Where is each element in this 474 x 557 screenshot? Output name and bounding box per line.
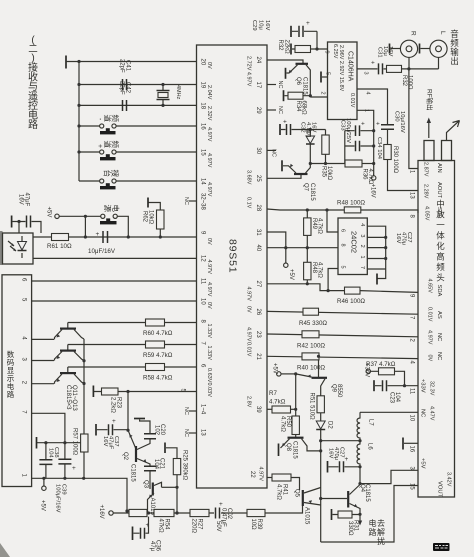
- svg-text:源: 源: [103, 205, 112, 213]
- +5V terminal: [55, 214, 59, 218]
- svg-text:1: 1: [364, 109, 370, 112]
- svg-text:出: 出: [450, 56, 459, 66]
- transistor Q8 C1815: [295, 435, 297, 438]
- resistor R39 10: [247, 509, 265, 516]
- svg-text:15: 15: [200, 149, 206, 156]
- inductor L6: [357, 441, 360, 467]
- svg-text:体: 体: [436, 231, 445, 241]
- +5V vertical wire: [295, 374, 297, 416]
- svg-text:C1815: C1815: [309, 183, 315, 201]
- svg-text:2.8V: 2.8V: [246, 396, 252, 408]
- resistor R50 4.7k: [292, 416, 299, 435]
- svg-text:+: +: [376, 121, 380, 128]
- svg-text:10kΩ: 10kΩ: [326, 166, 332, 181]
- svg-text:100μ/25V: 100μ/25V: [345, 118, 351, 143]
- svg-text:2: 2: [359, 245, 365, 248]
- svg-text:Q5: Q5: [294, 489, 300, 498]
- svg-text:15: 15: [409, 483, 415, 490]
- wire IC pin24 to Q6 base: [267, 60, 303, 63]
- wire display pin4 row: [32, 338, 54, 340]
- wire R23 junction down to Q2 base: [128, 392, 136, 450]
- svg-text:+: +: [371, 60, 375, 67]
- IC pins 1~4 NC: [189, 410, 197, 412]
- svg-text:去: 去: [377, 518, 385, 528]
- svg-text:330Ω: 330Ω: [347, 521, 353, 536]
- svg-text:6.25V: 6.25V: [332, 44, 338, 59]
- svg-text:24C02: 24C02: [350, 231, 359, 253]
- svg-text:R42 100Ω: R42 100Ω: [297, 343, 325, 350]
- svg-text:R32: R32: [401, 75, 407, 87]
- RF output arrow: [428, 122, 430, 138]
- svg-text:R58 4.7kΩ: R58 4.7kΩ: [143, 375, 173, 382]
- svg-text:4.97V: 4.97V: [206, 153, 212, 168]
- svg-text:R7: R7: [269, 390, 277, 397]
- svg-text:NC: NC: [183, 197, 189, 205]
- wire Q3 collector to R25 line: [162, 486, 178, 488]
- svg-text:10μ/16V: 10μ/16V: [399, 111, 405, 133]
- svg-text:放: 放: [436, 210, 445, 220]
- svg-text:4.7kΩ: 4.7kΩ: [276, 484, 282, 500]
- pushbutton S4 电源: [101, 214, 105, 218]
- svg-text:0V: 0V: [246, 306, 252, 313]
- svg-text:8550: 8550: [336, 384, 342, 398]
- svg-text:路: 路: [28, 118, 38, 131]
- svg-text:11: 11: [409, 388, 415, 395]
- svg-text:D2: D2: [327, 421, 333, 429]
- svg-text:12: 12: [200, 255, 206, 262]
- svg-text:4.7kΩ: 4.7kΩ: [280, 416, 286, 432]
- wire receiver out to pin12 row: [33, 257, 197, 259]
- wire display pin6 to IC pin11: [32, 280, 197, 282]
- svg-text:+: +: [96, 144, 103, 148]
- svg-text:R45 330Ω: R45 330Ω: [299, 320, 327, 327]
- svg-text:1~4: 1~4: [200, 404, 206, 415]
- svg-text:0.1V: 0.1V: [246, 197, 252, 209]
- svg-text:C1815: C1815: [130, 464, 136, 482]
- wire pin19 row: [79, 84, 197, 86]
- resistor R48 4.7k (pulldown): [304, 262, 311, 280]
- wire pin9 row: [33, 236, 197, 238]
- wire display pin2 row: [32, 383, 54, 385]
- svg-text:R57 100Ω: R57 100Ω: [72, 428, 78, 456]
- svg-text:5: 5: [325, 72, 331, 75]
- ground at 24C02 pin7: [378, 269, 386, 279]
- svg-text:R: R: [410, 31, 417, 36]
- svg-text:16: 16: [200, 123, 206, 130]
- transistor Q5 A1015: [302, 490, 304, 506]
- pushbutton S3 搜台: [100, 179, 104, 183]
- resistor R23 2.2k: [102, 388, 119, 395]
- svg-text:10μ: 10μ: [258, 20, 264, 30]
- svg-text:104: 104: [48, 448, 54, 458]
- wire IC pin28 SCL row: [267, 209, 418, 213]
- svg-text:11: 11: [200, 278, 206, 285]
- wire display pin3 row: [32, 360, 54, 362]
- svg-text:102: 102: [154, 425, 160, 436]
- wire L7 top to tuner pin10: [360, 411, 418, 413]
- wire display pin7 row: [32, 413, 65, 442]
- svg-text:4.47V: 4.47V: [429, 406, 435, 421]
- resistor R34 68k: [283, 90, 285, 101]
- IR receiver box: [3, 233, 34, 264]
- svg-text:+: +: [72, 465, 76, 472]
- resistor R57 100: [81, 434, 88, 452]
- svg-text:A1015: A1015: [304, 507, 310, 525]
- svg-text:4: 4: [359, 223, 365, 226]
- resistor R48 100 (SCL): [344, 207, 361, 213]
- +36V terminal and R37 4.7k: [366, 369, 370, 373]
- svg-text:10: 10: [200, 298, 206, 305]
- wire tuner pin11 row: [375, 385, 418, 387]
- RCA jack L: [430, 40, 447, 57]
- svg-text:NC: NC: [277, 106, 283, 114]
- ground symbol top-left: [65, 56, 67, 69]
- svg-text:2.32V: 2.32V: [206, 106, 212, 121]
- svg-text:47μ: 47μ: [149, 541, 155, 552]
- photodiode D3 in receiver: [21, 236, 23, 258]
- svg-text:AOUT: AOUT: [436, 182, 442, 199]
- wire +5V to Q9 emitter: [281, 373, 296, 375]
- svg-text:20: 20: [200, 59, 206, 66]
- wire Q4 base: [321, 498, 347, 500]
- wire IC pin39 to R7: [267, 408, 272, 410]
- resistor R40 100: [302, 353, 319, 360]
- capacitor C02 0.47uF 50V: [216, 508, 220, 519]
- svg-text:16V: 16V: [18, 194, 24, 205]
- wire IC pin7 to R59: [68, 344, 197, 346]
- RF output connector post: [424, 141, 434, 161]
- resistor R54 47k: [154, 509, 174, 516]
- transistor Q7 C1815: [267, 175, 301, 179]
- svg-text:+5V: +5V: [272, 363, 278, 374]
- 24C02 pin5 stub: [328, 269, 338, 291]
- svg-text:R48 100Ω: R48 100Ω: [337, 200, 365, 207]
- +5V terminal bottom: [43, 478, 45, 486]
- svg-text:NC: NC: [271, 149, 277, 157]
- capacitor C20 102: [144, 434, 156, 439]
- wire +16V rail: [113, 506, 302, 513]
- svg-text:+: +: [283, 119, 287, 126]
- svg-text:19: 19: [200, 82, 206, 89]
- svg-text:R59 4.7kΩ: R59 4.7kΩ: [143, 352, 173, 359]
- svg-text:NC: NC: [183, 407, 189, 415]
- wire +5V drop to pin9 row: [84, 216, 86, 237]
- svg-text:R35: R35: [321, 166, 327, 178]
- svg-text:台: 台: [103, 170, 113, 178]
- svg-text:C31: C31: [377, 47, 383, 58]
- svg-text:Q6: Q6: [295, 77, 301, 86]
- svg-text:32.3V: 32.3V: [429, 381, 435, 396]
- svg-text:16V: 16V: [102, 436, 108, 446]
- capacitor C38 104: [45, 443, 47, 479]
- wire display pin1 row: [32, 478, 127, 509]
- svg-text:Q2: Q2: [122, 452, 128, 461]
- svg-text:32~38: 32~38: [200, 193, 206, 211]
- capacitor C27 470u 16V (bottom): [327, 461, 329, 473]
- antenna symbol: [447, 121, 460, 141]
- svg-text:R25 390kΩ: R25 390kΩ: [182, 450, 188, 481]
- capacitor C36 47u: [132, 527, 134, 541]
- svg-text:R40 100Ω: R40 100Ω: [297, 365, 325, 372]
- wire C38/C39 top row: [37, 442, 81, 444]
- svg-text:8: 8: [340, 244, 346, 247]
- svg-text:SDA: SDA: [436, 285, 442, 297]
- capacitor C32 4.7u 16V: [279, 124, 281, 135]
- svg-text:R30 100Ω: R30 100Ω: [392, 146, 398, 174]
- svg-text:R46 100Ω: R46 100Ω: [337, 298, 365, 305]
- wire audio junction to tuner pin1: [409, 69, 418, 169]
- wire IC pin31 drop: [267, 232, 286, 248]
- svg-text:R61 10Ω: R61 10Ω: [47, 243, 72, 250]
- svg-text:2.87V: 2.87V: [423, 162, 429, 177]
- svg-text:220Ω: 220Ω: [191, 519, 197, 534]
- vertical spine wire D2 to bottom rail: [320, 430, 322, 542]
- svg-text:4: 4: [365, 92, 371, 95]
- svg-text:0V: 0V: [206, 62, 212, 69]
- capacitor C31 10u 16V: [379, 63, 383, 74]
- wire pin14 row: [79, 180, 197, 182]
- resistor R59 4.7k: [146, 341, 165, 348]
- antenna input post: [442, 141, 452, 161]
- capacitor C21 104: [144, 466, 156, 471]
- C1406HA pin5 ground stub: [322, 76, 328, 78]
- svg-text:0.01V: 0.01V: [246, 342, 252, 357]
- 24C02 right stubs tied: [367, 226, 385, 269]
- wire pin15 row: [79, 151, 197, 153]
- svg-text:L6: L6: [367, 443, 373, 450]
- svg-text:10μF/16V: 10μF/16V: [88, 248, 116, 255]
- bottom rail wire to tuner pin15: [321, 486, 418, 543]
- wire spine to L6/L7 junction: [321, 440, 360, 442]
- svg-text:4.97V: 4.97V: [246, 327, 252, 342]
- svg-text:39: 39: [255, 406, 261, 413]
- svg-text:0.63V: 0.63V: [206, 368, 212, 383]
- svg-text:0.01V: 0.01V: [349, 93, 355, 108]
- svg-text:22pF: 22pF: [119, 59, 125, 73]
- svg-text:解: 解: [377, 527, 385, 537]
- wire C29 drop to pin9 row: [316, 31, 318, 49]
- svg-text:27: 27: [255, 281, 261, 288]
- svg-text:4.97V: 4.97V: [258, 467, 264, 482]
- ground bus wire: [78, 62, 80, 182]
- svg-text:+: +: [219, 501, 223, 508]
- svg-text:2.2kΩ: 2.2kΩ: [110, 397, 116, 413]
- svg-text:+5V: +5V: [40, 500, 46, 511]
- svg-text:4.97V: 4.97V: [427, 330, 433, 345]
- svg-text:+: +: [146, 522, 150, 529]
- svg-text:+5V: +5V: [420, 458, 426, 469]
- wire IC pin23 row: [267, 334, 418, 337]
- svg-text:高: 高: [436, 252, 445, 262]
- svg-text:R60 4.7kΩ: R60 4.7kΩ: [143, 330, 173, 337]
- svg-text:一: 一: [436, 220, 445, 230]
- svg-text:50V: 50V: [215, 521, 221, 532]
- svg-text:NC: NC: [420, 409, 426, 417]
- resistor R27 220: [190, 509, 209, 516]
- svg-text:13: 13: [200, 429, 206, 436]
- svg-text:47kΩ: 47kΩ: [158, 519, 164, 534]
- wire IC pin40 to 24C02 pin8: [267, 247, 338, 249]
- resistor R45 330: [303, 308, 319, 315]
- capacitor C41: [123, 79, 127, 90]
- svg-text:16: 16: [409, 446, 415, 453]
- svg-text:29: 29: [255, 107, 261, 114]
- resistor R36 4.7k: [345, 160, 362, 167]
- wire R57 bottom: [83, 452, 85, 478]
- resistor R62 10k: [157, 210, 165, 229]
- svg-text:26: 26: [255, 309, 261, 316]
- svg-text:中: 中: [436, 199, 445, 209]
- svg-text:2.04V: 2.04V: [206, 85, 212, 100]
- svg-text:C33: C33: [340, 120, 346, 131]
- svg-text:道: 道: [103, 141, 113, 149]
- svg-text:1.33V: 1.33V: [206, 324, 212, 339]
- svg-text:4.97V: 4.97V: [206, 182, 212, 197]
- IC pin 13 NC: [189, 432, 197, 434]
- svg-text:40: 40: [255, 245, 261, 252]
- svg-text:VOUT: VOUT: [437, 481, 443, 498]
- resistor R26 (unlabeled): [129, 509, 147, 516]
- svg-text:+: +: [306, 20, 310, 27]
- svg-text:头: 头: [436, 273, 445, 283]
- svg-text:Q7: Q7: [303, 183, 309, 192]
- diode D1: [309, 130, 311, 164]
- svg-text:16V: 16V: [395, 233, 401, 243]
- svg-text:100μF/16V: 100μF/16V: [55, 484, 61, 513]
- junction bus top: [77, 60, 80, 63]
- svg-text:2: 2: [320, 92, 326, 95]
- transistor Q9 8550: [296, 374, 312, 377]
- tuner pin16 ground: [404, 442, 418, 444]
- svg-text:25: 25: [255, 175, 261, 182]
- svg-text:L7: L7: [368, 419, 374, 426]
- C1406HA pin4 stub to C30 line: [357, 89, 388, 124]
- svg-text:RF输出: RF输出: [426, 89, 435, 111]
- capacitor C43 10uF/16V: [103, 231, 108, 243]
- IC U1 89S51 box: [197, 45, 268, 488]
- svg-text:4.7kΩ: 4.7kΩ: [269, 399, 286, 406]
- resistor R32 22k: [290, 44, 292, 55]
- svg-text:4.65V: 4.65V: [427, 279, 433, 294]
- op-amp U2 C1406HA box: [328, 42, 358, 120]
- svg-text:4.05V: 4.05V: [424, 206, 430, 221]
- svg-text:R49: R49: [311, 218, 317, 230]
- svg-text:22pF: 22pF: [119, 81, 125, 95]
- resistor R49 4.7k: [304, 218, 311, 236]
- IC pin 29 NC: [267, 109, 276, 111]
- wire IC pin21 row: [267, 356, 418, 358]
- +16V terminal right: [372, 176, 376, 180]
- scan smudge bottom-left corner: [0, 543, 10, 557]
- capacitor C40 47uF/16V: [11, 216, 13, 228]
- crystal X1 4MHz: [162, 85, 164, 106]
- svg-text:4.97V: 4.97V: [206, 260, 212, 275]
- svg-text:16V: 16V: [264, 20, 270, 30]
- svg-text:C29: C29: [251, 20, 257, 31]
- svg-text:+5V: +5V: [288, 269, 294, 280]
- IC pins 32~38 NC: [189, 200, 197, 202]
- transistor Q12: [67, 345, 69, 351]
- eeprom U3 24C02 box: [338, 218, 367, 275]
- svg-text:4.97V: 4.97V: [206, 127, 212, 142]
- resistor R7 4.7k: [272, 406, 291, 413]
- svg-text:3: 3: [363, 72, 369, 75]
- wire divider row to R36: [310, 163, 345, 165]
- svg-text:7: 7: [359, 266, 365, 269]
- svg-text:+16V: +16V: [370, 184, 376, 198]
- wire IC pin5 to R23: [93, 391, 196, 393]
- resistor R51 510: [317, 396, 324, 413]
- svg-text:0V: 0V: [427, 355, 433, 362]
- svg-text:0.01V: 0.01V: [427, 307, 433, 322]
- svg-text:0.03V: 0.03V: [206, 383, 212, 398]
- capacitor C30 10u/16V: [381, 125, 394, 130]
- svg-text:22: 22: [249, 471, 255, 478]
- svg-text:Q3: Q3: [143, 480, 149, 489]
- svg-text:L: L: [439, 31, 446, 35]
- svg-text:28: 28: [255, 205, 261, 212]
- +5V terminal at pin31/40: [285, 248, 287, 263]
- svg-text:道: 道: [103, 115, 113, 123]
- svg-text:C23: C23: [389, 392, 395, 404]
- wire R jack down: [408, 57, 410, 69]
- svg-text:Q9: Q9: [331, 384, 337, 393]
- svg-text:C30: C30: [394, 111, 400, 122]
- capacitor C34 104: [345, 145, 374, 147]
- transistor Q2 C1815: [135, 446, 137, 462]
- svg-text:0V: 0V: [206, 238, 212, 245]
- svg-text:17: 17: [255, 82, 261, 89]
- resistor R30 100: [384, 145, 391, 160]
- transistor Q3 A1015: [152, 483, 154, 496]
- svg-text:+33V: +33V: [420, 379, 426, 393]
- resistor R25 390k: [173, 459, 180, 475]
- +5V terminal mid: [277, 372, 281, 376]
- wire IC pin8 to R60: [68, 322, 197, 324]
- svg-text:R32: R32: [277, 40, 283, 52]
- pushbutton S2 频道+: [100, 150, 104, 154]
- svg-text:R62: R62: [142, 211, 148, 223]
- resistor R31 330: [331, 509, 333, 520]
- svg-text:14: 14: [200, 178, 206, 185]
- resistor R58 4.7k: [146, 364, 165, 371]
- ground bar at R23: [92, 386, 94, 398]
- resistor R41 4.7k: [272, 474, 291, 481]
- svg-text:+: +: [361, 121, 365, 128]
- wire +5V to power button: [59, 215, 100, 217]
- capacitor C29 10u 16V: [290, 26, 292, 37]
- svg-text:+: +: [112, 418, 116, 425]
- svg-text:R48: R48: [311, 262, 317, 274]
- svg-text:扰: 扰: [377, 536, 385, 546]
- svg-text:22kΩ: 22kΩ: [284, 40, 290, 55]
- svg-text:R51 510Ω: R51 510Ω: [309, 393, 315, 421]
- svg-text:21: 21: [255, 353, 261, 360]
- svg-text:化: 化: [436, 241, 445, 251]
- tuner box 中放一体化高频头: [418, 161, 455, 498]
- wire L jack down: [438, 57, 440, 69]
- wire C33/C34 left tie: [344, 131, 346, 164]
- svg-text:24: 24: [255, 57, 261, 64]
- svg-text:18: 18: [200, 102, 206, 109]
- svg-text:Q8: Q8: [285, 443, 291, 452]
- IC pin 17 NC: [267, 84, 276, 86]
- svg-text:路: 路: [7, 389, 15, 399]
- resistor R32 100 (audio): [384, 68, 387, 70]
- svg-text:104: 104: [394, 392, 400, 403]
- C1406HA pin2 stub: [310, 96, 327, 98]
- svg-text:R36: R36: [362, 169, 368, 181]
